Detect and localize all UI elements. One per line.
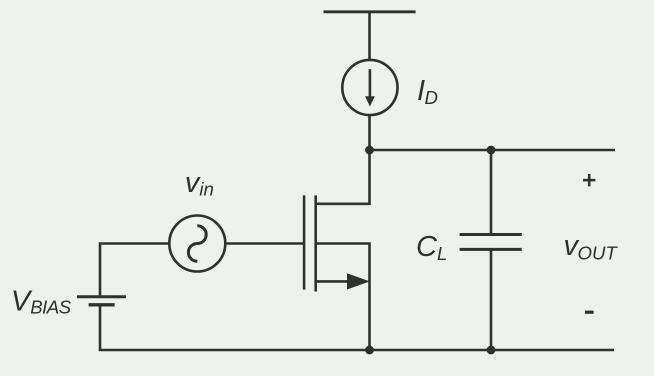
label output minus terminal: [585, 311, 594, 314]
capacitor C_L top plate: [460, 233, 522, 236]
battery V_BIAS short plate: [89, 303, 115, 306]
battery V_BIAS long plate: [77, 295, 126, 298]
node C: M1 source junction on bottom rail: [365, 346, 374, 355]
VDD supply rail bar: [324, 10, 416, 13]
node B: capacitor top junction: [487, 146, 496, 155]
wire v_in source to M1 gate: [226, 242, 305, 245]
transistor M1 channel plate: [314, 195, 317, 291]
wire battery bottom to ground rail: [100, 306, 614, 351]
transistor M1 body arrowhead: [347, 273, 370, 289]
current source I_D: [342, 60, 397, 115]
wire VDD bar to current source: [368, 12, 371, 60]
wire current source to node A: [368, 115, 371, 150]
node D: capacitor bottom junction on bottom rail: [487, 346, 496, 355]
transistor M1 body arrow lead: [316, 280, 350, 283]
wire node A down to M1 drain lead: [316, 150, 370, 204]
label output plus terminal: [583, 174, 595, 186]
transistor M1 gate plate: [303, 195, 306, 289]
wire capacitor C_L to bottom rail: [490, 250, 493, 350]
node A: drain / current source / output junction: [365, 146, 374, 155]
wire node B down to capacitor C_L: [490, 150, 493, 234]
capacitor C_L bottom plate: [460, 248, 522, 251]
AC source v_in: [169, 216, 225, 272]
transistor M1 source lead to bottom rail: [316, 244, 370, 351]
wire battery top corner to v_in source: [100, 244, 169, 297]
wire node A to output + terminal: [370, 149, 616, 152]
